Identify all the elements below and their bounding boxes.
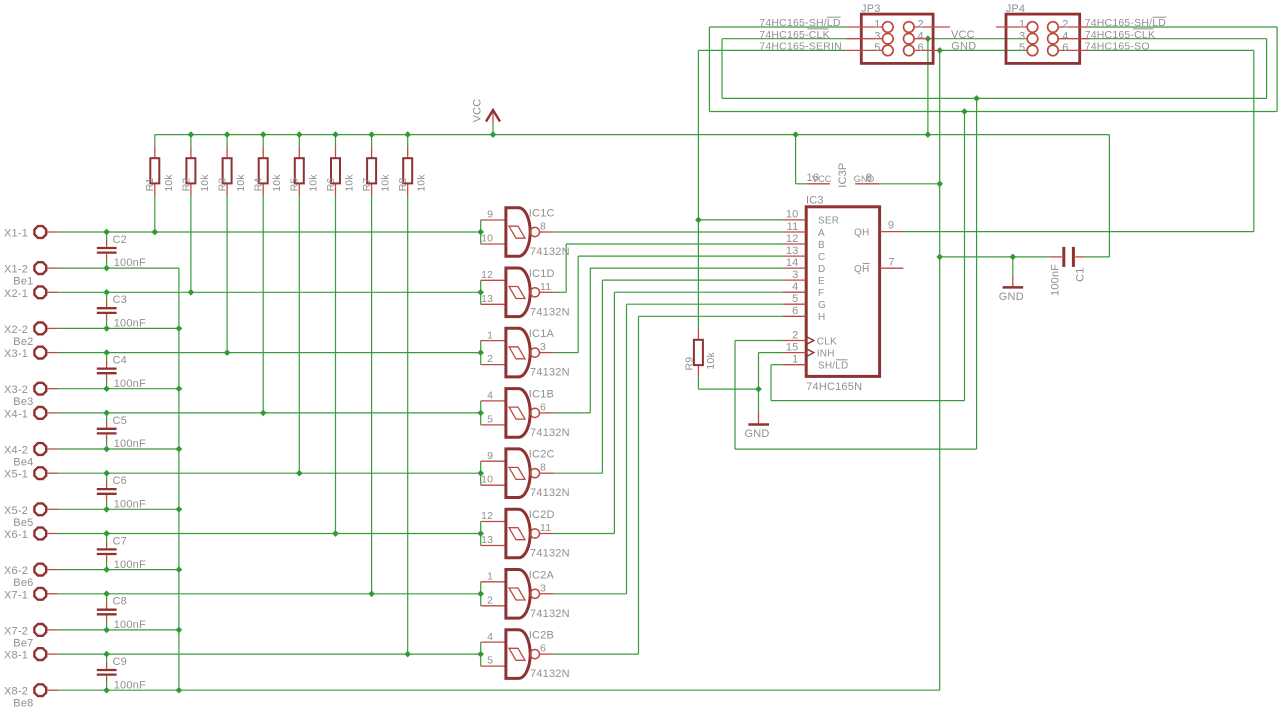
svg-text:100nF: 100nF [114,498,146,510]
wire IC3P VCC link [796,183,807,185]
svg-text:12: 12 [481,269,493,281]
junction bus X7-2 [176,627,183,634]
svg-text:1: 1 [487,571,493,583]
junction R9 INH GND [755,386,762,393]
wire R3 top to rail [226,135,228,147]
IC3 pin 3 E [783,279,806,281]
junction gate 3 input [477,349,484,356]
resistor R3 [223,147,232,196]
JP4 pin 4 [1048,33,1090,44]
junction rail R2 [188,131,195,138]
wire IC3 G row [627,303,784,305]
svg-text:IC3: IC3 [806,195,824,207]
wire IC gate2 out [554,291,566,293]
wire channel B vertical [565,244,567,292]
svg-text:QH: QH [854,228,869,239]
svg-text:IC1C: IC1C [529,208,555,220]
wire GND symbol stub mid [758,389,760,412]
wire IC3 H row [639,315,784,317]
power symbol VCC [486,110,500,124]
wire JP4 pin2 net [1090,26,1278,28]
svg-text:5: 5 [792,293,798,305]
wire CLK row [735,340,783,342]
wire X8-2 row to GND drop [58,689,940,691]
wire GND vertical to X8-2 [939,257,941,690]
junction C3 bottom [103,325,110,332]
svg-text:100nF: 100nF [114,257,146,269]
svg-text:C5: C5 [113,415,127,427]
svg-text:1: 1 [792,354,798,366]
connector pin X2-1 [34,286,58,298]
svg-text:X2-2: X2-2 [4,324,28,336]
junction bus X3-2 [176,385,183,392]
wire CLK far right vertical [1266,39,1268,99]
ground symbol GND (C1) [1003,276,1024,287]
svg-text:74132N: 74132N [530,246,570,258]
svg-text:100nF: 100nF [114,619,146,631]
svg-text:11: 11 [540,281,551,293]
wire SO right vertical [1253,50,1255,231]
connector pin X6-2 [34,564,58,576]
svg-text:4: 4 [918,30,924,42]
junction C6 top [103,470,110,477]
wire X6-2 row [58,569,179,571]
svg-text:4: 4 [792,281,798,293]
IC3 pin 15 INH [783,352,806,354]
wire JP3 pin1 net [709,26,846,28]
svg-text:74HC165-CLK: 74HC165-CLK [1085,29,1156,41]
svg-text:X8-2: X8-2 [4,686,28,698]
svg-text:C1: C1 [1074,267,1086,281]
wire GND row to C1 [940,256,1049,258]
svg-text:15: 15 [786,341,799,353]
wire CLK horizontal [735,448,977,450]
junction C5 top [103,410,110,417]
wire INH row [759,352,784,354]
JP3 pin 5 [846,45,893,56]
junction X1-1 R1 [151,229,158,236]
svg-text:X7-2: X7-2 [4,625,28,637]
IC3 pin 10 SER [783,219,806,221]
wire X2-1 row [58,291,481,293]
junction C2 bottom [103,265,110,272]
junction CLK branch [973,95,980,102]
wire IC gate8 out [554,653,639,655]
svg-text:C8: C8 [113,596,127,608]
wire X7-2 row [58,629,179,631]
svg-text:74132N: 74132N [530,608,570,620]
overline for label net 74HC165-CLK (JP3) [808,28,829,30]
resistor R2 [186,147,195,196]
wire SHLD right vertical [964,112,966,401]
wire X5-2 row [58,508,179,510]
junction rail R8 [404,131,411,138]
svg-text:X8-1: X8-1 [4,650,28,662]
svg-text:74HC165-SH/LD: 74HC165-SH/LD [1085,17,1167,29]
svg-text:100nF: 100nF [1050,264,1062,296]
svg-text:X6-1: X6-1 [4,529,28,541]
junction C4 top [103,349,110,356]
wire gate 7 input tie [480,582,482,606]
svg-text:100nF: 100nF [114,679,146,691]
svg-text:GND: GND [999,291,1024,303]
svg-text:VCC: VCC [472,99,484,123]
IC3 pin 9 QH [880,231,904,233]
wire IC1C out to IC3 A [554,231,783,233]
svg-text:D: D [818,264,825,275]
junction rail R6 [332,131,339,138]
junction gate 8 input [477,651,484,658]
NAND gate IC2A [481,570,554,619]
wire VCC rail right drop to C1 [1108,135,1110,257]
wire gate 1 input tie [480,220,482,244]
svg-text:8: 8 [866,172,872,184]
junction X4-1 R4 [260,410,267,417]
wire X6-1 row [58,533,481,535]
svg-text:11: 11 [787,221,799,233]
junction C7 bottom [103,566,110,573]
wire IC3 C row [578,255,783,257]
junction gate 6 input [477,530,484,537]
junction gate 2 input [477,289,484,296]
junction bus X2-2 [176,325,183,332]
junction rail VCC symbol [490,131,497,138]
junction bus X8-2 [176,687,183,694]
wire R1 bottom to row [154,196,156,232]
resistor R6 [331,147,340,196]
junction C6 bottom [103,506,110,513]
junction bus X5-2 [176,506,183,513]
junction IC3P GND [936,180,943,187]
junction C2 top [103,229,110,236]
wire JP4 pin6 net [1090,49,1254,51]
svg-text:5: 5 [487,413,493,425]
wire R1 top to rail [154,135,156,147]
junction C3 top [103,289,110,296]
svg-text:C7: C7 [113,535,127,547]
NAND gate IC1B [481,389,554,438]
wire JP3 pin5 net [698,49,846,51]
svg-text:2: 2 [792,329,798,341]
wire VCC drop [927,39,929,135]
wire VCC rail [155,134,1110,136]
svg-text:Be8: Be8 [13,698,33,710]
wire R5 bottom to row [298,196,300,473]
svg-text:C2: C2 [113,234,127,246]
svg-text:R4: R4 [253,178,265,192]
wire Be return bus [178,268,180,690]
svg-text:R5: R5 [289,178,301,192]
clock wedge INH [806,349,814,357]
capacitor C9 [97,654,117,690]
svg-text:74HC165-CLK: 74HC165-CLK [759,29,830,41]
wire X3-1 row [58,352,481,354]
wire IC gate5 out [554,472,603,474]
svg-text:11: 11 [540,522,551,534]
svg-text:X4-1: X4-1 [4,408,28,420]
junction X8-1 R8 [404,651,411,658]
svg-text:74HC165N: 74HC165N [806,381,862,393]
connector JP4 box [1006,14,1080,63]
wire IC3 F row [614,291,783,293]
svg-text:74HC165-SH/LD: 74HC165-SH/LD [759,17,841,29]
resistor R8 [403,147,412,196]
svg-text:X4-2: X4-2 [4,445,28,457]
svg-text:5: 5 [487,655,493,667]
JP3 pin 1 [846,22,893,33]
IC3 pin 13 C [783,255,806,257]
wire CLK long horizontal [722,97,1267,99]
svg-text:E: E [818,276,825,287]
wire VCC symbol stub [492,124,494,135]
JP4 pin 6 [1048,45,1090,56]
IC U1 74HC165N box [806,207,879,377]
capacitor C5 [97,413,117,449]
wire R6 top to rail [335,135,337,147]
connector pin X5-1 [34,467,58,479]
wire GND drop [939,50,941,257]
wire X1-2 row [58,267,179,269]
svg-text:IC2B: IC2B [529,630,554,642]
svg-text:12: 12 [481,510,493,522]
wire R5 top to rail [298,135,300,147]
overline QHbar [863,262,870,264]
NAND gate IC2C [481,449,554,498]
JP3 pin 3 [846,33,893,44]
capacitor C4 [97,353,117,389]
svg-text:Be1: Be1 [13,276,33,288]
svg-text:3: 3 [874,30,880,42]
svg-text:X1-1: X1-1 [4,228,28,240]
svg-text:GND: GND [951,41,976,53]
wire SHLD row [771,364,783,366]
svg-text:INH: INH [817,348,835,359]
wire IC3 B row [566,243,783,245]
junction X3-1 R3 [224,349,231,356]
junction X2-1 R2 [188,289,195,296]
svg-text:100nF: 100nF [114,378,146,390]
wire IC gate7 out [554,593,627,595]
resistor R5 [295,147,304,196]
connector pin X1-1 [34,226,58,238]
wire X4-1 row [58,412,481,414]
wire IC3 D row [590,267,783,269]
svg-text:2: 2 [1062,19,1068,31]
junction C9 top [103,651,110,658]
wire channel F vertical [613,292,615,533]
capacitor C1 [1049,247,1085,267]
svg-text:SER: SER [818,216,839,227]
svg-text:GND: GND [745,428,770,440]
wire channel H vertical [638,316,640,654]
junction GND symbol C1 [1009,254,1016,261]
svg-text:74HC165-SERIN: 74HC165-SERIN [759,41,842,53]
wire IC gate6 out [554,533,615,535]
svg-text:R8: R8 [397,178,409,192]
svg-text:Be5: Be5 [13,517,33,529]
wire R2 bottom to row [190,196,192,292]
junction rail IC3P VCC [792,131,799,138]
svg-text:SH/LD: SH/LD [818,361,848,372]
NAND gate IC2B [481,630,554,679]
wire X3-2 row [58,388,179,390]
wire R4 top to rail [262,135,264,147]
svg-text:Be6: Be6 [13,577,33,589]
svg-text:74132N: 74132N [530,367,570,379]
svg-text:74132N: 74132N [530,668,570,680]
overline for label net 74HC165-CLK (JP4) [1133,28,1154,30]
wire JP3 pin3 drop [721,39,723,99]
wire X1-1 row [58,231,481,233]
svg-text:4: 4 [487,631,493,643]
connector pin X8-1 [34,648,58,660]
connector pin X3-1 [34,347,58,359]
wire IC3P VCC drop [795,135,797,184]
svg-text:13: 13 [481,534,493,546]
wire R9 to GND junction [698,388,758,390]
clock wedge CLK [806,337,814,345]
wire GND symbol stub right [1012,257,1014,276]
wire channel C vertical [577,256,579,353]
svg-text:R7: R7 [361,178,373,192]
IC3 pin 2 CLK [783,340,806,342]
NAND gate IC2D [481,509,554,558]
svg-text:A: A [818,228,825,239]
wire channel E vertical [601,280,603,473]
capacitor C6 [97,473,117,509]
overline for label net 74HC165-SH/LD (JP4) [1153,16,1167,18]
junction C9 bottom [103,687,110,694]
svg-text:R9: R9 [683,357,695,371]
svg-text:F: F [818,288,824,299]
svg-text:74132N: 74132N [530,487,570,499]
junction SER R9 [695,217,702,224]
wire INH vertical [758,353,760,390]
wire X7-1 row [58,593,481,595]
svg-text:CLK: CLK [817,336,837,347]
connector pin X7-2 [34,624,58,636]
svg-text:8: 8 [540,462,546,474]
svg-text:1: 1 [487,329,493,341]
svg-text:X7-1: X7-1 [4,589,28,601]
wire VCC JP3-JP4 [928,38,1027,40]
svg-text:X3-2: X3-2 [4,384,28,396]
svg-text:2: 2 [918,19,924,31]
svg-text:R6: R6 [325,178,337,192]
svg-text:R2: R2 [180,178,192,192]
svg-text:5: 5 [874,42,880,54]
wire SERIN vertical [697,50,699,328]
wire R2 top to rail [190,135,192,147]
svg-text:X2-1: X2-1 [4,288,28,300]
wire gate 5 input tie [480,461,482,485]
wire R6 bottom to row [335,196,337,534]
svg-text:13: 13 [786,245,799,257]
wire JP3 pin1 drop [708,27,710,112]
svg-text:4: 4 [1062,30,1068,42]
JP3 pin 4 [904,33,928,44]
junction SHLD branch [961,108,968,115]
IC3 pin 6 H [783,315,806,317]
svg-text:IC1B: IC1B [529,388,554,400]
junction gate 4 input [477,410,484,417]
connector pin X5-2 [34,503,58,515]
wire X5-1 row [58,472,481,474]
svg-text:C4: C4 [113,355,127,367]
svg-text:X5-1: X5-1 [4,469,28,481]
svg-text:Be4: Be4 [13,457,33,469]
overline SH/LD [836,359,848,361]
junction C5 bottom [103,446,110,453]
wire gate 4 input tie [480,401,482,425]
IC3P VCC pin 16 [806,183,830,185]
wire IC gate3 out [554,352,578,354]
svg-text:74132N: 74132N [530,306,570,318]
IC3 pin 5 G [783,303,806,305]
svg-text:X5-2: X5-2 [4,505,28,517]
JP4 pin 2 [1048,22,1090,33]
svg-text:74132N: 74132N [530,427,570,439]
svg-text:X1-2: X1-2 [4,264,28,276]
svg-text:10k: 10k [235,174,247,192]
svg-text:8: 8 [540,221,546,233]
svg-text:Be3: Be3 [13,396,33,408]
overline for label net 74HC165-SH/LD (JP3) [827,16,841,18]
svg-text:VCC: VCC [812,174,832,184]
svg-text:3: 3 [792,269,798,281]
svg-text:10: 10 [481,474,493,486]
junction C4 bottom [103,385,110,392]
svg-text:VCC: VCC [951,29,975,41]
wire R4 bottom to row [262,196,264,413]
JP4 pin 5 [1027,45,1038,56]
capacitor C2 [97,232,117,268]
svg-text:X6-2: X6-2 [4,565,28,577]
svg-text:H: H [818,312,825,323]
svg-text:100nF: 100nF [114,438,146,450]
svg-text:IC2C: IC2C [529,449,555,461]
wire SHLD long horizontal [709,111,1277,113]
wire R3 bottom to row [226,196,228,353]
svg-text:IC2D: IC2D [529,509,555,521]
svg-text:10: 10 [786,209,799,221]
svg-text:R3: R3 [217,178,229,192]
connector pin X1-2 [34,262,58,274]
wire R7 top to rail [371,135,373,147]
junction rail R4 [260,131,267,138]
wire gate 6 input tie [480,522,482,546]
svg-text:10k: 10k [416,174,428,192]
svg-text:9: 9 [487,450,493,462]
svg-text:IC2A: IC2A [529,569,555,581]
junction X7-1 R7 [368,590,375,597]
svg-text:Be2: Be2 [13,336,33,348]
resistor R1 [150,147,159,196]
svg-text:5: 5 [1019,42,1025,54]
junction C8 top [103,590,110,597]
connector pin X8-2 [34,684,58,696]
wire IC gate4 out [554,412,591,414]
capacitor C8 [97,594,117,630]
NAND gate IC1C [481,208,554,257]
capacitor C7 [97,534,117,570]
svg-text:4: 4 [487,390,493,402]
wire X4-2 row [58,448,179,450]
junction rail R7 [368,131,375,138]
wire channel G vertical [626,304,628,594]
svg-text:10k: 10k [705,352,717,370]
svg-text:7: 7 [888,256,894,268]
